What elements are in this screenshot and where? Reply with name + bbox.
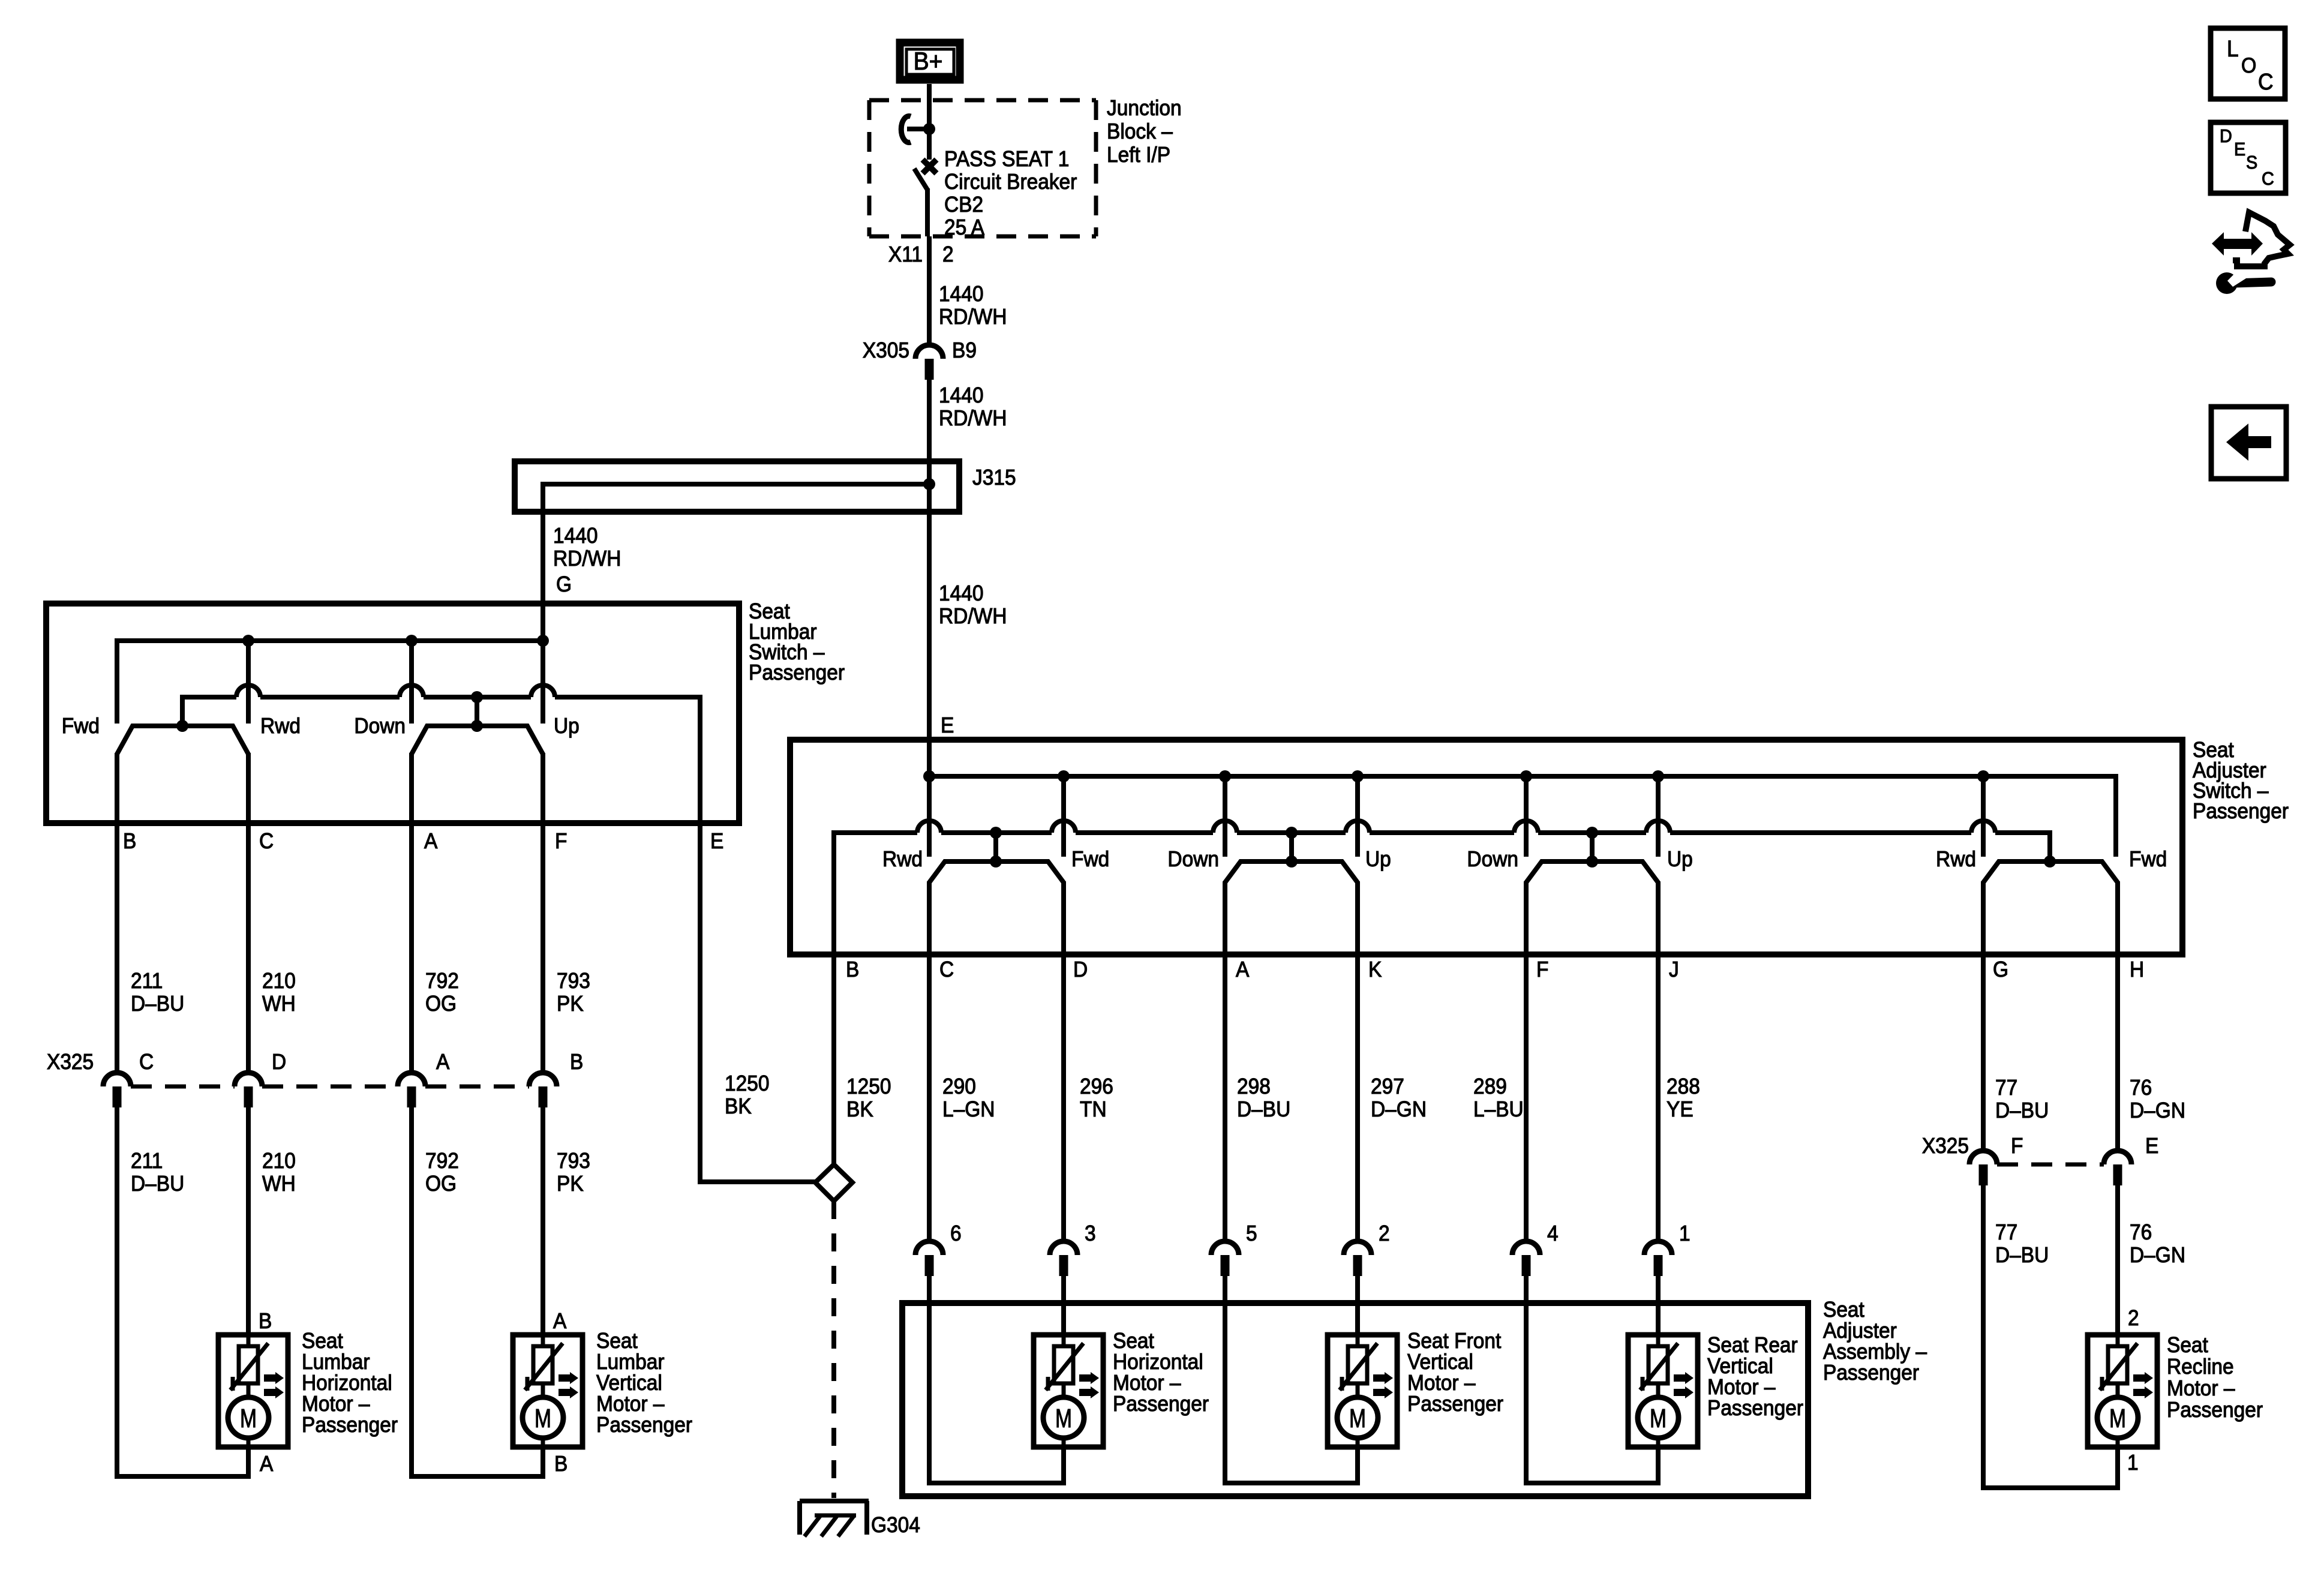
svg-text:B: B <box>259 1310 272 1333</box>
svg-text:D–GN: D–GN <box>1371 1098 1427 1121</box>
svg-text:Rwd: Rwd <box>1936 848 1976 871</box>
svg-text:E: E <box>2234 139 2245 160</box>
svg-text:Passenger: Passenger <box>2167 1398 2263 1422</box>
svg-text:WH: WH <box>262 992 296 1016</box>
svg-text:Down: Down <box>1467 848 1518 871</box>
wire 288 YE from pin J <box>1656 954 1661 1241</box>
svg-text:RD/WH: RD/WH <box>553 547 621 571</box>
svg-text:Passenger: Passenger <box>1707 1397 1803 1420</box>
double arrow of vehicle icon <box>2212 232 2263 256</box>
junction block - Left I/P dashed box <box>869 98 1096 103</box>
wires into seat adjuster assembly <box>927 1276 932 1485</box>
svg-text:298: 298 <box>1237 1075 1271 1098</box>
circuit breaker CB2 <box>927 100 932 160</box>
svg-text:Motor –: Motor – <box>1113 1371 1181 1395</box>
X325 right dashed connector line <box>1997 1163 2104 1167</box>
feed bus right drop to Fwd contact <box>2113 774 2118 857</box>
connector X325 pin C <box>103 1073 131 1086</box>
adjuster contact stubs <box>927 740 932 857</box>
svg-text:1: 1 <box>2127 1451 2139 1475</box>
svg-text:M: M <box>1055 1404 1072 1433</box>
svg-text:Seat: Seat <box>1113 1329 1154 1353</box>
svg-text:RD/WH: RD/WH <box>939 407 1007 430</box>
svg-text:E: E <box>941 714 954 737</box>
svg-text:J315: J315 <box>972 466 1016 490</box>
svg-text:G: G <box>1993 958 2008 981</box>
wire 792 OG from pin A <box>409 823 414 1073</box>
svg-text:210: 210 <box>262 1149 296 1173</box>
svg-text:Lumbar: Lumbar <box>302 1350 370 1374</box>
wire 290 L-GN from pin C <box>927 954 932 1241</box>
svg-text:D–GN: D–GN <box>2130 1099 2185 1122</box>
motion arrows of lumbar horizontal motor <box>264 1372 284 1384</box>
svg-text:289: 289 <box>1473 1075 1507 1098</box>
svg-text:L: L <box>2227 36 2239 61</box>
svg-text:Recline: Recline <box>2167 1355 2234 1379</box>
wire 297 D-GN from pin K <box>1355 954 1360 1241</box>
svg-text:Rwd: Rwd <box>882 848 923 871</box>
wire 76 D-GN below X325 <box>2115 1185 2120 1335</box>
connector X325 pin F <box>1969 1151 1997 1164</box>
connector pin 6 <box>915 1241 943 1255</box>
svg-text:O: O <box>2241 54 2256 77</box>
motor M circle of lumbar vertical motor <box>541 1383 545 1398</box>
svg-text:Passenger: Passenger <box>302 1413 398 1437</box>
motor M circle of seat rear vertical motor <box>1656 1383 1661 1398</box>
svg-text:Vertical: Vertical <box>596 1371 662 1395</box>
svg-text:Passenger: Passenger <box>1823 1361 1919 1385</box>
motion arrows of seat horizontal motor <box>1079 1372 1099 1384</box>
svg-text:Seat: Seat <box>302 1329 343 1353</box>
svg-text:Horizontal: Horizontal <box>302 1371 392 1395</box>
svg-text:M: M <box>535 1404 551 1433</box>
wrench of vehicle icon <box>2216 272 2238 294</box>
motor M circle of lumbar horizontal motor <box>247 1383 251 1398</box>
svg-text:M: M <box>1349 1404 1366 1433</box>
svg-text:PK: PK <box>557 1172 584 1196</box>
motion arrows of seat front vertical motor <box>1373 1372 1393 1384</box>
svg-text:M: M <box>240 1404 257 1433</box>
connector pin 5 <box>1211 1241 1239 1255</box>
seat front vertical motor M4 <box>1328 1335 1397 1447</box>
svg-text:6: 6 <box>950 1222 962 1245</box>
svg-text:F: F <box>1536 958 1548 981</box>
connector X325 pin B <box>529 1073 557 1086</box>
seat lumbar switch box <box>46 604 739 823</box>
thermal limiter of lumbar horizontal motor <box>247 1335 251 1347</box>
svg-text:B9: B9 <box>952 339 977 362</box>
svg-text:2: 2 <box>2128 1307 2139 1330</box>
svg-text:Motor –: Motor – <box>1707 1376 1776 1399</box>
wire 792 OG below X325 <box>409 1107 414 1479</box>
svg-text:H: H <box>2130 958 2144 981</box>
svg-text:77: 77 <box>1995 1221 2017 1244</box>
svg-text:PASS SEAT 1: PASS SEAT 1 <box>944 148 1069 171</box>
svg-text:Lumbar: Lumbar <box>596 1350 664 1374</box>
lumbar common bus right drop to pin E <box>698 695 702 823</box>
svg-text:Motor –: Motor – <box>302 1392 370 1416</box>
svg-text:290: 290 <box>942 1075 976 1098</box>
common bus right drop to recline armature <box>2047 830 2052 861</box>
svg-text:296: 296 <box>1080 1075 1113 1098</box>
motion arrows of lumbar vertical motor <box>559 1372 578 1384</box>
svg-text:M: M <box>2109 1404 2126 1433</box>
seat horizontal motor M3 <box>1034 1335 1103 1447</box>
svg-text:Assembly –: Assembly – <box>1823 1340 1927 1364</box>
svg-text:Passenger: Passenger <box>1113 1392 1209 1416</box>
wire 289 L-BU from pin F <box>1524 954 1529 1241</box>
svg-text:A: A <box>1236 958 1250 981</box>
wire 1440 RD/WH J315 to seat adjuster switch <box>927 512 932 743</box>
rear vertical switch armature <box>1526 861 1658 882</box>
wire 793 PK from pin F <box>541 823 545 1073</box>
svg-text:4: 4 <box>1547 1222 1559 1245</box>
svg-text:L–BU: L–BU <box>1473 1098 1524 1121</box>
svg-text:Motor –: Motor – <box>2167 1377 2235 1400</box>
thermal limiter of seat rear vertical motor <box>1656 1335 1661 1347</box>
svg-text:Seat: Seat <box>2167 1334 2208 1357</box>
svg-text:Rwd: Rwd <box>260 715 301 738</box>
svg-text:Fwd: Fwd <box>2129 848 2167 871</box>
junction dot to vertical armature <box>471 691 483 703</box>
svg-text:Passenger: Passenger <box>1407 1392 1503 1416</box>
lumbar common bus left drop to horizontal armature <box>180 695 185 726</box>
svg-text:Seat: Seat <box>1823 1298 1864 1322</box>
return wire loop of lumbar vertical motor <box>541 1447 545 1479</box>
lumbar Fwd contact stub <box>115 638 119 724</box>
wire 76 D-GN from pin H <box>2115 954 2120 1151</box>
adjuster switch feed bus <box>929 774 2118 779</box>
svg-text:D: D <box>272 1050 286 1074</box>
wire 210 WH from pin C <box>246 823 251 1073</box>
vehicle adjustment icon <box>2233 212 2290 266</box>
svg-text:B: B <box>846 958 859 981</box>
svg-text:Seat: Seat <box>596 1329 638 1353</box>
svg-text:76: 76 <box>2130 1076 2152 1100</box>
svg-text:792: 792 <box>425 1149 459 1173</box>
connector pin 2 <box>1344 1241 1371 1255</box>
seat adjuster assembly box <box>902 1303 1808 1496</box>
svg-text:297: 297 <box>1371 1075 1404 1098</box>
seat rear vertical motor M5 <box>1628 1335 1698 1447</box>
svg-text:Down: Down <box>1167 848 1219 871</box>
svg-text:1440: 1440 <box>939 582 983 605</box>
svg-text:RD/WH: RD/WH <box>939 605 1007 628</box>
seat recline motor M6 <box>2088 1335 2157 1447</box>
junction dot J315 <box>923 478 935 490</box>
svg-text:Fwd: Fwd <box>62 715 100 738</box>
motion arrows of seat recline motor <box>2133 1372 2153 1384</box>
wire 77 D-BU below X325 <box>1981 1185 1986 1490</box>
junction dots on adjuster feed bus <box>923 770 935 782</box>
svg-text:D–BU: D–BU <box>1995 1244 2049 1267</box>
wire through J315 <box>541 482 929 487</box>
svg-text:Motor –: Motor – <box>596 1392 665 1416</box>
svg-text:210: 210 <box>262 969 296 993</box>
wire 1250 BK from pin E <box>698 823 702 1184</box>
svg-text:C: C <box>2258 69 2274 94</box>
return loop of seat horizontal motor <box>1061 1447 1066 1485</box>
svg-text:BK: BK <box>846 1098 873 1121</box>
svg-text:Left I/P: Left I/P <box>1107 143 1170 167</box>
svg-text:288: 288 <box>1667 1075 1700 1098</box>
svg-text:Passenger: Passenger <box>2193 800 2289 823</box>
LOC icon box <box>2211 28 2285 99</box>
svg-text:G: G <box>556 573 572 596</box>
svg-text:YE: YE <box>1667 1098 1694 1121</box>
svg-text:C: C <box>939 958 954 981</box>
lumbar Down contact stub <box>409 641 414 724</box>
wire 298 D-BU from pin A <box>1223 954 1227 1241</box>
svg-text:D–BU: D–BU <box>1237 1098 1290 1121</box>
svg-text:B+: B+ <box>914 47 943 76</box>
svg-text:1250: 1250 <box>846 1075 891 1098</box>
connector X325 pin E <box>2104 1151 2131 1164</box>
svg-text:M: M <box>1650 1404 1667 1433</box>
back arrow icon box <box>2211 407 2286 479</box>
svg-text:A: A <box>553 1310 567 1333</box>
svg-text:Block –: Block – <box>1107 120 1173 143</box>
svg-text:76: 76 <box>2130 1221 2152 1244</box>
common bus drop to pin B <box>831 830 836 954</box>
svg-text:77: 77 <box>1995 1076 2017 1100</box>
svg-text:793: 793 <box>557 969 590 993</box>
svg-text:Passenger: Passenger <box>749 661 845 685</box>
horizontal drive switch armature <box>929 861 1064 882</box>
wire 211 D-BU below X325 <box>115 1107 119 1479</box>
wire 211 D-BU from pin B <box>115 823 119 1073</box>
common bus stubs to armatures <box>990 827 1002 839</box>
svg-text:793: 793 <box>557 1149 590 1173</box>
lumbar Rwd contact stub <box>246 641 251 724</box>
svg-text:X325: X325 <box>47 1050 94 1074</box>
svg-text:F: F <box>2011 1134 2023 1158</box>
lumbar switch feed bus <box>115 638 543 643</box>
svg-text:Down: Down <box>354 715 406 738</box>
battery B+ symbol <box>900 43 960 80</box>
return loop of recline motor <box>2115 1447 2120 1490</box>
svg-text:211: 211 <box>131 969 163 993</box>
svg-text:D–BU: D–BU <box>131 992 184 1016</box>
thermal limiter of seat horizontal motor <box>1062 1335 1066 1347</box>
svg-text:X305: X305 <box>863 339 909 362</box>
motion arrows of seat rear vertical motor <box>1674 1372 1694 1384</box>
splice J315 box <box>515 461 959 512</box>
thermal limiter of seat recline motor <box>2116 1335 2120 1347</box>
connector X325 pin D <box>235 1073 262 1086</box>
svg-text:PK: PK <box>557 992 584 1016</box>
svg-text:2: 2 <box>1379 1222 1390 1245</box>
seat adjuster switch box <box>790 740 2182 954</box>
adjuster switch common bus with hops <box>831 830 917 835</box>
svg-text:Junction: Junction <box>1107 97 1182 120</box>
seat lumbar vertical motor M2 <box>513 1335 582 1447</box>
circuit breaker blade <box>914 169 928 191</box>
wire 1440 RD/WH from X305 to J315 <box>927 380 932 461</box>
svg-text:1440: 1440 <box>939 384 983 407</box>
svg-text:K: K <box>1368 958 1382 981</box>
wire 1250 BK from pin B <box>831 954 836 1164</box>
lumbar Up contact stub (wire G) <box>541 607 545 724</box>
svg-text:B: B <box>554 1452 568 1476</box>
svg-text:WH: WH <box>262 1172 296 1196</box>
return loop of seat rear vertical motor <box>1656 1447 1661 1485</box>
wire 210 WH below X325 <box>246 1107 251 1335</box>
junction dots on lumbar feed bus <box>242 635 254 647</box>
svg-text:Seat Front: Seat Front <box>1407 1329 1502 1353</box>
lumbar horizontal switch armature <box>117 726 248 754</box>
svg-text:Seat Rear: Seat Rear <box>1707 1334 1798 1357</box>
wire 1440 RD/WH from CB to X305 <box>927 236 932 345</box>
svg-text:C: C <box>139 1050 154 1074</box>
thermal limiter of seat front vertical motor <box>1356 1335 1360 1347</box>
DESC icon box <box>2211 122 2286 193</box>
connector pin 3 <box>1050 1241 1077 1255</box>
svg-text:Up: Up <box>1365 848 1391 871</box>
svg-text:Motor –: Motor – <box>1407 1371 1476 1395</box>
lumbar vertical switch armature <box>412 726 543 754</box>
svg-text:A: A <box>260 1452 274 1476</box>
svg-text:D–BU: D–BU <box>1995 1099 2049 1122</box>
svg-text:Horizontal: Horizontal <box>1113 1350 1203 1374</box>
svg-text:Up: Up <box>1667 848 1693 871</box>
svg-text:Vertical: Vertical <box>1407 1350 1473 1374</box>
svg-text:A: A <box>424 830 438 853</box>
svg-text:Vertical: Vertical <box>1707 1355 1773 1378</box>
svg-text:RD/WH: RD/WH <box>939 305 1007 329</box>
svg-text:D: D <box>2220 126 2232 146</box>
recline switch armature <box>1983 861 2118 882</box>
svg-text:A: A <box>436 1050 450 1074</box>
splice diamond on ground wire <box>698 1179 815 1184</box>
svg-text:X325: X325 <box>1922 1134 1969 1158</box>
svg-text:OG: OG <box>425 1172 457 1196</box>
svg-text:X11: X11 <box>888 243 923 266</box>
svg-text:Circuit Breaker: Circuit Breaker <box>944 170 1077 194</box>
dashed ground wire to G304 <box>831 1201 836 1498</box>
svg-text:B: B <box>570 1050 583 1074</box>
ground G304 symbol <box>800 1499 869 1503</box>
svg-text:E: E <box>710 830 723 853</box>
svg-text:BK: BK <box>725 1095 752 1118</box>
wire 1440 RD/WH branch to lumbar switch <box>541 482 545 607</box>
svg-text:Adjuster: Adjuster <box>1823 1319 1897 1343</box>
svg-text:J: J <box>1669 958 1679 981</box>
svg-text:E: E <box>2145 1134 2158 1158</box>
svg-text:2: 2 <box>942 243 954 266</box>
svg-text:D–BU: D–BU <box>131 1172 184 1196</box>
svg-text:25 A: 25 A <box>944 216 985 239</box>
wire 77 D-BU from pin G <box>1981 954 1986 1151</box>
svg-text:S: S <box>2246 152 2257 173</box>
X325 left dashed connector line <box>131 1085 235 1089</box>
lumbar switch common bus with hops <box>180 695 236 700</box>
connector X305 pin B9 <box>915 345 943 359</box>
wire 296 TN from pin D <box>1061 954 1066 1241</box>
svg-text:1250: 1250 <box>725 1072 769 1095</box>
svg-text:3: 3 <box>1085 1222 1096 1245</box>
motor M circle of seat horizontal motor <box>1062 1383 1066 1398</box>
svg-text:5: 5 <box>1246 1222 1257 1245</box>
svg-text:D–GN: D–GN <box>2130 1244 2185 1267</box>
svg-text:L–GN: L–GN <box>942 1098 995 1121</box>
svg-text:B: B <box>123 830 136 853</box>
return wire loop of lumbar horizontal motor <box>246 1447 251 1479</box>
svg-text:G304: G304 <box>871 1514 920 1537</box>
svg-text:C: C <box>2262 169 2274 189</box>
svg-text:TN: TN <box>1080 1098 1107 1121</box>
return loop of seat front vertical motor <box>1355 1447 1360 1485</box>
svg-text:Up: Up <box>554 715 580 738</box>
svg-text:CB2: CB2 <box>944 193 983 217</box>
motor M circle of seat recline motor <box>2116 1383 2120 1398</box>
connector pin 1 <box>1644 1241 1672 1255</box>
svg-text:Passenger: Passenger <box>596 1413 692 1437</box>
svg-text:Fwd: Fwd <box>1071 848 1109 871</box>
svg-text:1440: 1440 <box>553 524 597 548</box>
motor M circle of seat front vertical motor <box>1356 1383 1360 1398</box>
left arrow glyph <box>2226 424 2271 461</box>
svg-text:C: C <box>259 830 274 853</box>
wire 793 PK below X325 <box>541 1107 545 1335</box>
svg-text:OG: OG <box>425 992 457 1016</box>
connector pin 4 <box>1512 1241 1540 1255</box>
connector X325 pin A <box>398 1073 425 1086</box>
circuit breaker contact X <box>923 160 936 173</box>
svg-text:792: 792 <box>425 969 459 993</box>
thermal limiter of lumbar vertical motor <box>541 1335 545 1347</box>
svg-text:F: F <box>555 830 567 853</box>
svg-text:1440: 1440 <box>939 283 983 306</box>
svg-text:D: D <box>1073 958 1088 981</box>
svg-text:211: 211 <box>131 1149 163 1173</box>
svg-text:1: 1 <box>1679 1222 1691 1245</box>
front vertical switch armature <box>1225 861 1358 882</box>
seat lumbar horizontal motor M1 <box>218 1335 288 1447</box>
wire B+ to junction block <box>927 84 932 102</box>
